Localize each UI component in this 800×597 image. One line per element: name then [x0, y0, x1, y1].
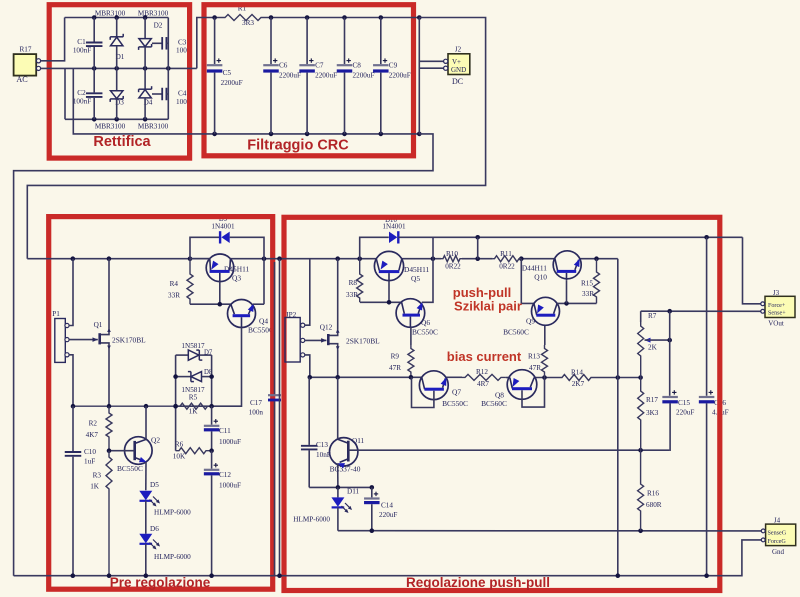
- wire Q5/Q6 base node: [360, 300, 402, 305]
- capacitor C14 220uF: [364, 487, 380, 530]
- diode D9 1N4001 bypass: [190, 231, 264, 304]
- svg-text:C12: C12: [219, 471, 231, 479]
- wire V+ loop to lower blocks: [27, 18, 485, 259]
- block border: Rettifica: [49, 5, 189, 158]
- svg-text:HLMP-6000: HLMP-6000: [154, 509, 191, 517]
- svg-text:D6: D6: [150, 525, 159, 533]
- capacitor C9 2200uF: [373, 18, 389, 134]
- transistor Q6 BC550C (NPN sziklai): [396, 299, 425, 328]
- wire V+ stub between blocks: [279, 259, 281, 576]
- wire bridge bottom rail: [65, 117, 168, 122]
- connector J4 (Gnd): [761, 524, 795, 546]
- svg-text:Sense+: Sense+: [768, 311, 786, 317]
- wire middle rail branch down to bridge bottom rail: [64, 68, 66, 119]
- svg-text:R2: R2: [89, 420, 98, 428]
- wire Q7 base loop: [412, 377, 434, 407]
- svg-text:Regolazione push-pull: Regolazione push-pull: [406, 575, 550, 590]
- svg-text:BC550C: BC550C: [117, 464, 143, 473]
- svg-text:C11: C11: [219, 427, 231, 435]
- svg-text:2SK170BL: 2SK170BL: [346, 337, 380, 346]
- wire AC pin2 / bridge middle rail: [41, 66, 197, 71]
- transistor Q1 2SK170BL jfet: [100, 328, 111, 350]
- wire Q11 collector up to bias rail: [337, 377, 339, 439]
- svg-text:SenseG: SenseG: [768, 531, 787, 537]
- LED D5 HLMP-6000: [139, 491, 160, 507]
- svg-text:C17: C17: [250, 399, 262, 407]
- resistor R15 33R: [594, 259, 600, 304]
- svg-text:33R: 33R: [582, 290, 594, 298]
- svg-text:220uF: 220uF: [676, 409, 694, 417]
- svg-text:C6: C6: [279, 62, 288, 70]
- wire D10 line to J3 Force+: [433, 235, 743, 240]
- capacitor C16 4.7uF: [699, 390, 715, 403]
- svg-text:D5: D5: [150, 481, 159, 489]
- svg-text:R12: R12: [476, 368, 488, 376]
- svg-text:HLMP-6000: HLMP-6000: [154, 553, 191, 561]
- resistor R3 1K: [106, 451, 112, 576]
- svg-text:C10: C10: [84, 448, 96, 456]
- svg-text:DC: DC: [452, 77, 463, 86]
- wire long output column (C16): [706, 237, 708, 575]
- svg-text:BC550C: BC550C: [412, 328, 438, 337]
- wire SenseG line: [338, 528, 763, 533]
- svg-text:R16: R16: [647, 490, 659, 498]
- transistor Q10 D44H11 (NPN pass): [553, 251, 581, 280]
- svg-text:C3: C3: [178, 39, 187, 47]
- svg-text:J4: J4: [774, 517, 781, 525]
- trimmer R7 2K: [638, 311, 672, 377]
- resistor R4 33R: [187, 259, 193, 305]
- connector R17 (AC input): [14, 54, 41, 76]
- wire D5 to D6: [145, 501, 147, 534]
- wire Q9 emitter to Q10 base node: [557, 301, 596, 306]
- svg-text:GND: GND: [451, 66, 466, 74]
- svg-text:R3: R3: [93, 472, 102, 480]
- resistor R8 33R: [357, 259, 363, 303]
- svg-text:BC560C: BC560C: [503, 328, 529, 337]
- capacitor C1: [86, 18, 103, 69]
- wire D7/D8 right column: [209, 355, 214, 406]
- wire LED bias node: [309, 485, 374, 490]
- resistor R5 1K: [73, 403, 208, 409]
- svg-text:C5: C5: [223, 69, 232, 77]
- svg-text:BC550C: BC550C: [442, 399, 468, 408]
- capacitor C17 100n between blocks: [268, 262, 281, 576]
- diode D7 1N5817: [176, 350, 212, 360]
- svg-text:J2: J2: [455, 46, 462, 54]
- svg-text:Q3: Q3: [232, 274, 241, 283]
- connector P1 trimmer: [55, 319, 69, 363]
- transistor Q4 BC550C (NPN sziklai): [228, 300, 256, 328]
- svg-text:100nF: 100nF: [73, 98, 91, 106]
- wire Q4 base down to R5 node: [212, 327, 242, 406]
- svg-text:1N5817: 1N5817: [181, 342, 205, 350]
- resistor R10 0R22: [441, 256, 462, 262]
- wire JP2 top pin to rail: [305, 259, 310, 326]
- svg-text:bias current: bias current: [447, 349, 522, 364]
- diode D3 MBR3100: [110, 68, 123, 119]
- svg-text:C8: C8: [353, 62, 362, 70]
- wire Q6 base down to R9: [410, 327, 412, 345]
- svg-text:P1: P1: [52, 310, 60, 318]
- svg-text:33R: 33R: [168, 292, 180, 300]
- svg-text:4K7: 4K7: [86, 431, 99, 439]
- svg-text:0R22: 0R22: [499, 263, 515, 271]
- capacitor C5 2200uF: [207, 18, 223, 134]
- svg-text:C7: C7: [315, 62, 324, 70]
- svg-text:0R22: 0R22: [445, 263, 461, 271]
- wire rail into Q3: [190, 258, 209, 260]
- svg-text:Q4: Q4: [259, 317, 268, 326]
- wire D6 to ground rail: [145, 544, 147, 576]
- svg-text:220uF: 220uF: [379, 511, 397, 519]
- capacitor C8 2200uF: [337, 18, 353, 134]
- svg-text:C15: C15: [678, 399, 690, 407]
- capacitor C7 2200uF: [299, 18, 315, 134]
- wire Q9 base down to R13: [544, 326, 546, 345]
- LED D11 HLMP-6000: [331, 487, 352, 513]
- svg-text:100nF: 100nF: [73, 47, 91, 55]
- svg-text:1N4001: 1N4001: [211, 223, 235, 231]
- svg-text:D11: D11: [347, 488, 360, 496]
- wire branch at x433 to rail: [432, 237, 434, 258]
- svg-text:C4: C4: [178, 90, 187, 98]
- svg-text:2K7: 2K7: [572, 380, 585, 388]
- svg-text:10K: 10K: [173, 453, 186, 461]
- wire Q4 emitter to D9 column: [253, 303, 264, 305]
- wire right bridge column: [167, 18, 169, 120]
- wire Q2 collector up: [145, 406, 147, 439]
- capacitor C4: [152, 88, 168, 101]
- diode D8 1N5817: [176, 372, 212, 382]
- wire Q2 base: [107, 448, 135, 453]
- diode D2 MBR3100: [139, 18, 152, 69]
- wire output column down: [617, 259, 619, 576]
- wire main supply rail (V+) across lower blocks: [27, 256, 618, 261]
- resistor R12 4R7: [462, 374, 506, 380]
- wire Q10 base down: [566, 280, 568, 303]
- wire rectifier middle rail up to filter rail: [197, 18, 215, 69]
- wire ground rail bottom: [14, 540, 764, 578]
- wire bias rail: [308, 375, 643, 380]
- wire JP2 wiper to Q12 gate: [305, 338, 327, 343]
- wire Q11 base to divider: [348, 448, 669, 453]
- wire Q12 drain to rail: [337, 259, 339, 330]
- transistor Q12 2SK170BL jfet: [328, 329, 339, 351]
- transistor Q5 D45H11 (PNP pass): [374, 251, 403, 280]
- svg-text:1N4001: 1N4001: [382, 223, 406, 231]
- wire filter top rail with junctions: [212, 15, 421, 20]
- connector JP2 trimmer: [285, 318, 305, 363]
- wire negative output of rectifier: [73, 68, 421, 136]
- svg-text:100n: 100n: [249, 409, 264, 417]
- wire Q8 base loop: [522, 378, 545, 408]
- connector J2 (DC output): [444, 54, 470, 75]
- svg-text:Q10: Q10: [534, 273, 547, 282]
- capacitor C10 1uF: [65, 406, 82, 576]
- svg-text:R4: R4: [170, 280, 179, 288]
- svg-text:D45H11: D45H11: [404, 265, 429, 274]
- red annotation texts: [93, 134, 550, 590]
- svg-text:V+: V+: [452, 58, 461, 66]
- block border: Regolazione push-pull: [284, 217, 720, 590]
- wire Q3/Q4 base node: [190, 302, 231, 307]
- wire Q3 base down to node: [219, 281, 221, 304]
- svg-text:D2: D2: [154, 22, 163, 30]
- wire to J2 V+: [419, 60, 443, 62]
- diode D10 1N4001 bypass: [360, 231, 433, 259]
- wire to J2 GND: [419, 67, 443, 69]
- svg-text:4R7: 4R7: [477, 380, 489, 388]
- capacitor C2: [86, 68, 103, 119]
- svg-text:MBR3100: MBR3100: [95, 123, 126, 131]
- svg-text:2200uF: 2200uF: [221, 79, 243, 87]
- transistor Q9 BC560C (PNP sziklai): [532, 297, 560, 325]
- wire ground return to lower blocks: [14, 134, 433, 576]
- diode D4 MBR3100: [139, 68, 152, 119]
- svg-text:Q2: Q2: [151, 436, 160, 445]
- capacitor C11 1000uF: [204, 406, 220, 453]
- svg-text:2200uF: 2200uF: [389, 72, 411, 80]
- svg-text:C1: C1: [77, 38, 86, 46]
- resistor R9 47R: [408, 345, 414, 377]
- svg-text:Pre regolazione: Pre regolazione: [110, 575, 211, 590]
- wire Q11 emitter down: [337, 463, 339, 487]
- wire Q12 source down: [337, 349, 339, 377]
- block border: Filtraggio CRC: [204, 5, 414, 156]
- wire D7/D8 left column: [173, 355, 178, 451]
- diode D1 MBR3100: [110, 18, 123, 69]
- wire R11 node down to Q9: [521, 259, 534, 304]
- svg-text:Sziklai pair: Sziklai pair: [454, 299, 522, 314]
- svg-text:R15: R15: [581, 280, 593, 288]
- svg-text:BC560C: BC560C: [481, 399, 507, 408]
- wire Sense+ feedback line: [641, 309, 763, 314]
- resistor R17 3K3: [638, 378, 644, 451]
- svg-text:2K: 2K: [648, 344, 658, 352]
- svg-text:Gnd: Gnd: [772, 548, 785, 556]
- block border: Pre regolazione: [49, 217, 273, 590]
- capacitor C12 1000uF: [204, 451, 220, 576]
- transistor Q2 BC550C: [125, 437, 153, 465]
- LED D6 HLMP-6000: [139, 534, 160, 550]
- wire D11 to lower node: [337, 507, 339, 530]
- svg-text:Q12: Q12: [320, 324, 333, 332]
- connector pin texts: [451, 58, 787, 545]
- resistor R2 4K7: [106, 406, 112, 451]
- svg-text:Filtraggio CRC: Filtraggio CRC: [247, 138, 349, 154]
- wire R5 line junctions: [71, 404, 214, 409]
- resistor R16 680R: [638, 450, 644, 531]
- svg-text:Q1: Q1: [94, 321, 103, 329]
- svg-text:C14: C14: [381, 502, 393, 510]
- resistor R11 0R22: [493, 256, 522, 262]
- svg-text:3K3: 3K3: [646, 409, 659, 417]
- svg-text:2SK170BL: 2SK170BL: [112, 336, 146, 345]
- resistor R14 2K7: [560, 375, 593, 381]
- svg-text:1000uF: 1000uF: [219, 438, 241, 446]
- svg-text:R17: R17: [20, 46, 32, 54]
- svg-text:D44H11: D44H11: [522, 264, 547, 273]
- svg-text:R17: R17: [646, 396, 658, 404]
- resistor R13 47R: [542, 345, 548, 378]
- svg-text:2200uF: 2200uF: [279, 72, 301, 80]
- svg-text:33R: 33R: [346, 291, 358, 299]
- wire Q5 base down: [388, 281, 390, 303]
- wire Q1 drain to rail: [108, 259, 110, 329]
- transistor Q7 BC550C diode-connected: [419, 371, 448, 400]
- wire R7 wiper column to C15: [669, 311, 671, 396]
- svg-text:Force+: Force+: [768, 303, 786, 309]
- svg-text:R9: R9: [391, 353, 400, 361]
- svg-text:R5: R5: [189, 394, 198, 402]
- capacitor C15 220uF: [662, 390, 678, 450]
- svg-text:2200uF: 2200uF: [353, 72, 375, 80]
- wire P1 top pin to rail: [69, 259, 73, 326]
- transistor Q8 BC560C diode-connected: [507, 370, 537, 400]
- wire P1 wiper to Q1 gate: [69, 337, 98, 342]
- svg-text:HLMP-6000: HLMP-6000: [293, 516, 330, 524]
- svg-text:47R: 47R: [529, 364, 541, 372]
- svg-text:C9: C9: [389, 62, 398, 70]
- svg-text:Q7: Q7: [452, 388, 461, 397]
- svg-text:1uF: 1uF: [84, 458, 95, 466]
- wire P1 bottom pin down: [69, 355, 73, 406]
- wire J3 Force+ drop: [743, 237, 763, 303]
- connector J3 (VOut): [761, 296, 795, 317]
- svg-text:3R3: 3R3: [242, 19, 254, 27]
- capacitor C13 10nF: [301, 377, 318, 487]
- svg-text:MBR3100: MBR3100: [138, 10, 169, 18]
- svg-text:1K: 1K: [90, 483, 100, 491]
- svg-text:47R: 47R: [389, 364, 401, 372]
- svg-text:MBR3100: MBR3100: [95, 10, 126, 18]
- svg-text:2200uF: 2200uF: [315, 72, 337, 80]
- svg-text:ForceG: ForceG: [768, 539, 787, 545]
- wire bridge top rail: [65, 15, 169, 20]
- svg-text:680R: 680R: [646, 501, 662, 509]
- wire Q2 emitter down: [145, 462, 147, 490]
- resistor R6 10K: [176, 448, 212, 454]
- transistor Q3 D45H11 (PNP pass): [206, 254, 234, 282]
- svg-text:10nF: 10nF: [316, 451, 331, 459]
- svg-text:BC550C: BC550C: [248, 326, 274, 335]
- svg-text:C13: C13: [316, 441, 328, 449]
- transistor Q11 BC337-40 error amp: [330, 438, 358, 469]
- wire filter right column: [418, 18, 420, 134]
- svg-text:Q5: Q5: [411, 274, 420, 283]
- capacitor C3: [152, 37, 168, 50]
- capacitor C6 2200uF: [263, 18, 279, 134]
- svg-text:1000uF: 1000uF: [219, 482, 241, 490]
- svg-text:VOut: VOut: [768, 320, 784, 328]
- resistor R1 3R3 on filter rail: [215, 15, 271, 21]
- wire Q1 source down: [108, 349, 110, 407]
- svg-text:C2: C2: [77, 89, 86, 97]
- svg-text:MBR3100: MBR3100: [138, 123, 169, 131]
- svg-text:Rettifica: Rettifica: [93, 134, 151, 150]
- wire JP2 bottom pin down: [305, 355, 310, 377]
- wire Q6 emitter to rail branch: [422, 259, 433, 303]
- svg-text:R7: R7: [648, 312, 657, 320]
- wire AC pin1 to bridge top rail: [41, 18, 65, 61]
- wire branch at x477 to rail: [477, 237, 479, 258]
- svg-text:R13: R13: [528, 353, 540, 361]
